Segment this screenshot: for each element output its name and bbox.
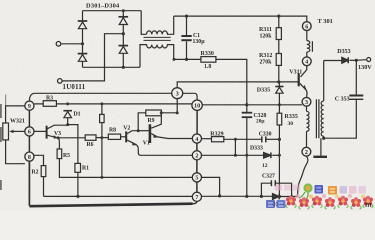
node C328 top xyxy=(245,103,248,106)
wire R329 to C330 xyxy=(224,138,262,140)
IC pin bus left xyxy=(28,110,30,127)
wire to 130V terminal xyxy=(356,59,366,62)
wire R8 to V2 base xyxy=(121,136,126,138)
wire pin7 row right xyxy=(201,195,272,197)
wire V2 collector riser to R9 xyxy=(138,113,146,131)
wire W321 top xyxy=(6,106,25,123)
node branch bottom xyxy=(234,154,237,157)
pin circle 3 xyxy=(172,88,183,99)
pin circle 2 xyxy=(192,151,201,160)
wire pin2 row right xyxy=(202,154,264,156)
wire D1 to R1 xyxy=(68,125,78,164)
wire W321 bottom xyxy=(6,140,25,164)
node top rail R311 xyxy=(277,15,280,18)
inductor choke bottom winding xyxy=(140,45,174,68)
wire bridge right column xyxy=(122,11,124,68)
node secondary bottom xyxy=(322,137,325,140)
resistor R3 xyxy=(43,101,56,107)
diode D334 xyxy=(273,194,298,200)
wire V1 emitter to pin4 xyxy=(158,137,193,139)
resistor R8 xyxy=(108,134,120,139)
wire AC1 xyxy=(61,43,83,45)
diode D303 xyxy=(119,17,129,25)
wire pin5 drop xyxy=(202,177,220,196)
wire R6 to R8 xyxy=(96,137,108,139)
wire T2 squiggle down xyxy=(298,156,308,196)
node C327 left xyxy=(260,195,263,198)
wire choke top-left lead xyxy=(141,11,146,35)
pin circle 10 xyxy=(192,100,202,110)
node choke-out xyxy=(173,58,176,61)
node R1 bottom xyxy=(76,195,79,198)
pin circle 7 xyxy=(192,192,201,201)
pot W321 xyxy=(3,123,9,140)
capacitor C327 xyxy=(261,180,291,196)
pin circle 6 xyxy=(25,127,34,136)
wire pin3 up to V311 base line xyxy=(177,82,298,88)
diode D304 xyxy=(119,46,129,54)
wire AC2 xyxy=(62,34,123,81)
left edge artifacts xyxy=(0,104,2,190)
wire branch pin2 row xyxy=(234,139,236,155)
node D333 right xyxy=(278,154,281,157)
node C1 top xyxy=(185,15,188,18)
inductor choke top winding xyxy=(147,16,174,34)
capacitor C353 xyxy=(324,60,364,138)
wire pin3 to pin10 xyxy=(183,93,197,100)
node R335 top xyxy=(278,103,281,106)
wire pin3 bottom stub xyxy=(176,99,178,113)
pin circle T2 xyxy=(302,147,311,156)
diode D353 xyxy=(342,57,357,63)
wire bridge top rail xyxy=(83,10,142,12)
flower row xyxy=(286,196,296,208)
wire V3 emitter to R5 xyxy=(58,138,59,149)
wire lower rail to R330 xyxy=(174,59,247,104)
node AC2 junction xyxy=(122,32,125,35)
node C1 bottom xyxy=(185,58,188,61)
wire V2 collector to V1 base xyxy=(138,130,149,132)
node C330 right xyxy=(278,138,281,141)
transistor V3 xyxy=(34,130,46,132)
node V2 collector xyxy=(137,129,140,132)
wire V311 emitter to T pin3 xyxy=(305,90,308,97)
faint violet chars xyxy=(340,186,348,194)
transistor V2 xyxy=(125,131,127,142)
resistor R7 vertical xyxy=(101,104,103,177)
wire W321 wiper xyxy=(11,130,25,132)
pin circle T3 xyxy=(302,97,311,106)
ground bar xyxy=(313,156,327,158)
node V3 emitter xyxy=(57,136,60,139)
resistor R5 xyxy=(57,149,62,159)
diode D302 xyxy=(78,54,88,62)
node C327 right xyxy=(290,195,293,198)
node D1 top xyxy=(66,102,69,105)
wire R9 right xyxy=(161,112,177,114)
blue char xyxy=(315,185,324,194)
node pin7row-C328 xyxy=(245,195,248,198)
transistor V311 xyxy=(301,66,307,77)
resistor R2 xyxy=(34,155,44,165)
wire V3 emitter to R6 xyxy=(58,137,85,139)
T301 secondary winding xyxy=(323,61,325,102)
pin circle T6 xyxy=(302,22,311,31)
resistor R312 xyxy=(276,54,281,66)
node bias join xyxy=(277,80,280,83)
node D334 right xyxy=(278,195,281,198)
wire R5 bottom to pin5 row xyxy=(59,159,192,178)
node R7 top xyxy=(100,102,103,105)
node pin2row-C328 xyxy=(245,154,248,157)
faint pink title text xyxy=(275,185,282,191)
wire pin4 to R329 xyxy=(202,138,212,140)
pin circle 8 xyxy=(25,152,34,161)
T301 feedback winding xyxy=(306,106,308,111)
node R7 pin5row xyxy=(100,176,103,179)
resistor R329 xyxy=(212,137,224,142)
node pin3-R9 xyxy=(176,111,179,114)
wire top rail xyxy=(174,16,307,22)
choke core xyxy=(144,37,171,40)
node D1 bottom xyxy=(66,123,69,126)
wire A (R3 row) xyxy=(34,103,192,105)
diode D335 xyxy=(275,82,283,113)
green mascot flower xyxy=(303,183,312,192)
orange char xyxy=(328,186,337,195)
pin circle 4 xyxy=(192,134,201,143)
resistor R311 xyxy=(278,16,280,53)
T301 primary winding xyxy=(306,31,308,41)
watermark logo bottom-right xyxy=(266,183,373,209)
terminal 130V xyxy=(367,58,371,62)
node R9-V1 xyxy=(160,111,163,114)
pin circle T4 xyxy=(302,57,311,66)
diode D333 xyxy=(264,153,280,159)
node AC1 junction xyxy=(81,42,84,45)
terminal AC1 xyxy=(56,42,61,47)
resistor R335 xyxy=(277,113,282,125)
ground stub xyxy=(320,138,322,156)
T301 core xyxy=(316,99,319,138)
wire bottom rail xyxy=(29,204,192,207)
resistor R6 xyxy=(85,135,96,140)
wire D353 row xyxy=(324,60,342,62)
wire bridge left column xyxy=(82,11,84,68)
resistor R1 xyxy=(75,163,81,172)
node 130V xyxy=(355,59,358,62)
svg-text:m: m xyxy=(365,200,372,209)
resistor R330 xyxy=(201,57,216,63)
node bridge bottom junction xyxy=(122,66,125,69)
node pin5 drop xyxy=(218,194,221,197)
wire pin7 row left xyxy=(44,195,193,197)
IC pin bus right xyxy=(196,110,198,133)
diode D1 xyxy=(63,111,72,125)
pin circle 5 xyxy=(192,173,201,182)
node C330 branch xyxy=(234,138,237,141)
node R7 bottom xyxy=(100,136,103,139)
capacitor C328 xyxy=(242,105,253,197)
resistor R9 xyxy=(146,110,162,116)
pin circle 9 xyxy=(25,101,34,110)
diode D301 xyxy=(78,21,88,29)
transistor V1 xyxy=(149,124,152,143)
wire bridge bottom rail xyxy=(83,66,141,68)
blue bold text bottom xyxy=(266,200,275,208)
capacitor C1 xyxy=(181,16,191,59)
terminal AC2 xyxy=(58,79,63,84)
wire IC top bar (pin9 to pin3) xyxy=(29,93,171,101)
capacitor C330 xyxy=(262,136,280,142)
wire V2 emitter to pin2 row xyxy=(136,145,192,156)
wire pin10 to C328 column and T301 pin3 xyxy=(202,104,302,106)
